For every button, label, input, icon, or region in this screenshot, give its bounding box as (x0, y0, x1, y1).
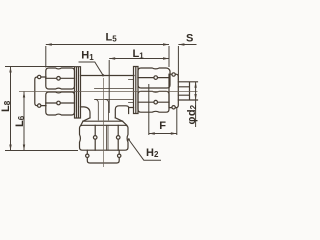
svg-text:F: F (159, 120, 166, 132)
svg-text:S: S (186, 33, 193, 45)
